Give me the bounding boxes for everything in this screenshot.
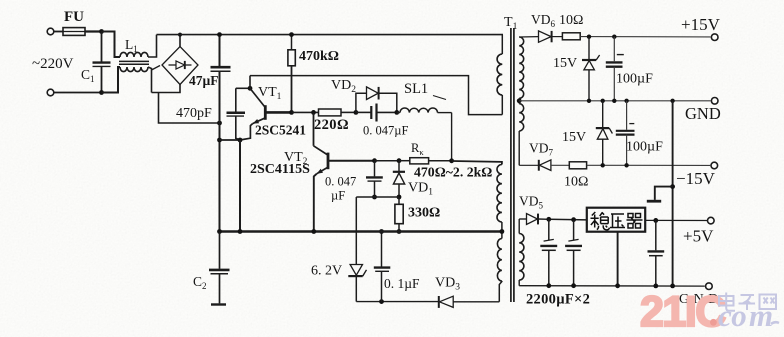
svg-text:SL1: SL1 [404,81,428,97]
svg-text:+15V: +15V [681,15,721,34]
svg-text:~220V: ~220V [32,56,74,72]
wire: emitter node to bottom rail [239,140,241,232]
junction: rail regulator gnd [615,283,620,288]
svg-text:21IC: 21IC [640,288,725,336]
junction: feedback winding rail tap [500,229,505,234]
svg-text:+5V: +5V [683,227,714,246]
capacitor 0.1uF [374,232,391,302]
junction: rail x313 (VT2 emitter) [311,229,316,234]
junction: C1 bottom [99,90,104,95]
wire: base node to R220 [292,111,319,113]
capacitor C1 [93,32,111,93]
junction: 100uF2 top [624,99,628,103]
svg-text:6. 2V: 6. 2V [311,264,342,279]
junction: rail x219 [217,229,222,234]
junction: zener2 bottom [601,163,605,167]
junction: VT1 emitter node [238,138,243,143]
inductor L1 lower winding [120,67,148,72]
label GND upper [685,104,721,123]
junction: output cap top [653,218,658,223]
wire: emitter return [220,139,241,141]
bridge rectifier D bridge [162,47,198,85]
label C1 [81,67,95,84]
wire: VT1 collector riser [249,76,251,89]
label L1 [125,37,138,54]
T1 secondary winding upper (+/-15V) [519,37,524,104]
wire: lower feedback line [356,301,438,303]
resistor 10 Ohm (-15V) [569,162,586,169]
svg-text:FU: FU [64,9,84,25]
capacitor 100uF (+rail) [606,37,624,101]
label VD6 [531,12,556,29]
wire: lower input to C1 bottom [55,92,102,94]
T1 secondary winding lower (-15V) [519,104,524,166]
resistor 330 [395,197,403,232]
junction: 100uF2 bottom [624,163,628,167]
svg-text:220Ω: 220Ω [314,117,349,133]
label FU [64,9,84,25]
svg-text:10Ω: 10Ω [564,175,588,190]
junction: 330 bottom on rail [397,229,402,234]
capacitor 100uF (-rail) [616,101,635,166]
svg-text:0. 047: 0. 047 [325,175,356,189]
label 0.047uF [363,124,408,138]
terminal GND upper [711,98,718,105]
label 10Ohm (-15V) [564,175,588,190]
label 470Ohm-2.2kOhm [414,165,492,180]
label 2SC5241 [255,123,306,138]
transistor VT2 [314,112,375,231]
capacitor 0.047uF drive [356,104,397,122]
svg-text:µF: µF [331,189,345,203]
label SL1 [404,81,446,100]
zener 15V (+rail) [582,37,600,101]
transistor VT1 [240,88,292,140]
svg-text:2SC5241: 2SC5241 [255,123,306,138]
wire: bridge bottom to DC- node [152,85,220,124]
junction: VD2 left node [354,110,359,115]
wire: to -15V terminal [587,164,711,166]
junction: 2200uF-1 top [546,217,551,222]
terminal +15V [711,34,718,41]
junction: 0.1uF top on rail [379,229,384,234]
wire: collector node to 470pF [236,87,250,89]
label VD1 [408,181,433,198]
junction: zener1 bottom [587,99,591,103]
label 470kOhm [299,49,339,64]
label VD7 [529,141,554,158]
resistor 220 [319,109,342,116]
diode VD7 [519,160,569,171]
label VD3 [435,276,460,293]
label 2SC4115S [250,162,310,177]
wire: upper input to fuse [55,31,64,33]
T1 secondary winding 5V [519,219,524,286]
chassis ground symbol [647,187,673,202]
label 0.047 (value) [325,175,356,189]
junction: DC- rail / emitter return tap [217,138,222,143]
junction: rail x240 [238,229,243,234]
T1 primary winding [497,35,502,115]
terminal: AC input upper [47,28,54,35]
label 470pF [176,106,212,121]
junction: VT1 collector node [248,86,253,91]
label ~220V [32,56,74,72]
resistor Rk [399,158,452,164]
wire: +5V bottom rail [519,285,705,287]
diode VD6 [539,31,563,42]
label 220Ohm [314,117,349,133]
junction: rail 2200uF-1 [546,283,551,288]
wire: VD5 to regulator [549,218,587,221]
bridge internal diode [169,61,192,69]
transformer T1 core [511,28,514,302]
junction: zener15V-1 top [587,35,591,39]
capacitor 470pF [227,88,246,140]
junction: GND drop top [670,99,674,103]
svg-text:15V: 15V [553,56,577,71]
junction: rail output cap [653,284,658,289]
label C2 [193,274,207,291]
label VD2 [331,78,356,95]
junction: 100uF-1 top [612,35,616,39]
svg-text:10Ω: 10Ω [559,13,583,28]
resistor 470k [288,35,295,113]
capacitor 0.047uF timing [366,161,383,197]
wire: collector rail to T1 primary [250,76,502,115]
label GND lower [679,292,719,307]
junction: node N diode side [397,195,402,200]
terminal GND lower [706,283,713,290]
label 330Ohm [408,206,440,221]
label +15V [681,15,721,34]
label 100uF (+rail) [616,72,653,87]
junction: 0.1uF bottom [379,299,384,304]
fuse FU [63,28,85,36]
wire: fuse to node A [85,30,102,32]
svg-text:0. 1µF: 0. 1µF [384,276,420,291]
junction: node N cap side [372,195,377,200]
svg-text:470kΩ: 470kΩ [299,49,339,64]
label 6.2V [311,264,342,279]
junction: DC- rail tap [217,121,222,126]
wire: C1 bottom to L1 bottom entry [102,67,121,93]
junction: chassis tap [670,184,675,189]
zener 6.2V [348,197,366,302]
label VD5 [519,194,544,211]
svg-text:470Ω~2. 2kΩ: 470Ω~2. 2kΩ [414,165,492,180]
wire: node N horizontal [356,196,399,198]
junction: rail gnd drop [670,284,675,289]
label 15V (-rail) [562,130,586,145]
wire: GND rail [519,100,710,102]
zener 15V (-rail) [596,101,613,166]
wire: node A to L1 top entry [102,32,121,58]
wire: R220 to cap node [341,111,356,113]
junction: VD2 right node [394,110,399,115]
junction: 0.047 cap tap [372,158,377,163]
wire: 10Ohm to +15V terminal [580,36,710,38]
label VT2 [284,150,308,167]
junction: 470k top on rail [289,32,294,37]
svg-text:2SC4115S: 2SC4115S [250,162,310,177]
svg-text:470pF: 470pF [176,106,212,121]
terminal +5V [708,217,715,224]
resistor 10 Ohm (+15V) [562,33,580,40]
wire: L1 upper to bridge top rail [148,35,157,57]
junction: VT1 base node [289,110,294,115]
capacitor 5V output [648,220,665,285]
terminal -15V [711,162,718,169]
label 10Ohm (+15V) [559,13,583,28]
svg-text:−15V: −15V [676,169,716,188]
wire: Rk node to T1 feedback winding [452,161,502,165]
junction: bridge top on rail [178,33,182,37]
label 100uF (-rail) [626,140,663,155]
svg-text:47µF: 47µF [189,73,219,88]
inductor L1 upper winding [120,52,148,57]
label T1 [504,15,518,32]
svg-text:100µF: 100µF [616,72,653,87]
diode VD3 [439,296,500,308]
capacitor C2 [209,232,230,305]
label -15V [676,169,716,188]
T1 feedback winding upper [497,165,502,239]
regulator U1 (Chinese: voltage stabilizer box) [587,208,645,232]
diode VD2 [356,87,397,113]
inductor L1 core [119,61,149,64]
junction: node A (C1 top) [99,29,104,34]
wire: secondary top to VD6 [519,36,538,38]
junction: VT2 collector tap [311,110,316,115]
watermark dianziwang (CJK) [719,293,776,311]
svg-text:0. 047µF: 0. 047µF [363,124,408,138]
label 15V (+rail) [553,56,577,71]
junction: 2200uF-2 top [571,217,576,222]
label uF (unit) [331,189,345,203]
label 47uF [189,73,219,88]
inductor SL1 [397,108,452,161]
svg-text:330Ω: 330Ω [408,206,440,221]
diode VD1 [393,161,405,197]
wire: top DC+ rail [157,34,504,36]
T1 feedback winding lower [497,239,502,282]
wire: bottom DC- rail [220,230,502,232]
wire: L1 lower to bridge left [148,66,160,93]
wire: VD3 to feedback winding bottom [499,281,502,302]
wire: bridge top to DC+ rail [179,35,181,47]
wire: regulator output to +5V [645,219,710,221]
diode VD5 [519,214,549,225]
capacitor 2200uF no.2 [565,220,582,286]
watermark 21IC.com [640,288,779,336]
junction: zener2 top [601,99,605,103]
label 2200uFx2 [526,292,590,308]
capacitor 2200uF no.1 [540,219,557,285]
svg-text:2200µF×2: 2200µF×2 [526,292,590,308]
label 0.1uF [384,276,420,291]
label Rk [411,141,424,157]
terminal: AC input lower [47,89,54,96]
svg-text:15V: 15V [562,130,586,145]
svg-text:GND: GND [685,104,721,123]
junction: secondary center tap [517,98,522,103]
svg-text:100µF: 100µF [626,140,663,155]
wire: to VD1 tap [375,160,400,162]
label VT1 [258,85,282,102]
junction: 47uF top on rail [217,32,222,37]
junction: Rk-SL1 node [449,158,454,163]
junction: VD1 tap [397,158,402,163]
junction: rail 2200uF-2 [571,283,576,288]
wire: regulator ground pin [617,232,619,286]
junction: 100uF1 bottom [612,99,616,103]
wire: GND vertical drop [672,101,674,286]
capacitor 47uF bus [211,35,231,232]
label +5V [683,227,714,246]
